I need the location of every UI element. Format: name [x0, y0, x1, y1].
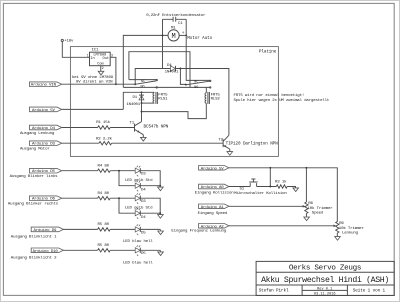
resistor R7 80 [98, 244, 111, 252]
title block box [256, 261, 394, 295]
svg-text:9V direkt an VIN: 9V direkt an VIN [76, 80, 113, 85]
svg-text:IC1: IC1 [92, 49, 100, 53]
svg-text:NO: NO [194, 86, 198, 90]
svg-text:RLS1: RLS1 [158, 98, 168, 102]
svg-text:Stefan Pirkl: Stefan Pirkl [259, 289, 289, 294]
wire LED to ground row3 [141, 228, 161, 230]
ground under trimmer R7 [335, 237, 341, 241]
svg-text:TIP120 Darlington NPN: TIP120 Darlington NPN [226, 141, 279, 146]
wire A0 to switch [229, 186, 250, 188]
svg-text:R6: R6 [308, 202, 313, 206]
svg-text:Lenkung: Lenkung [342, 231, 359, 236]
svg-text:LED gelb Std: LED gelb Std [125, 206, 153, 211]
ground row4 [158, 250, 164, 255]
wire T1 collector [141, 112, 143, 122]
svg-text:Spule hier wegen 2x UM zweimal: Spule hier wegen 2x UM zweimal dargestel… [234, 98, 330, 103]
junction VIN rail [115, 83, 117, 85]
wire motor B down to NC contact of K1b [186, 19, 210, 80]
connector Arduino A1 [198, 204, 229, 216]
svg-text:Arduino D6: Arduino D6 [32, 197, 56, 202]
svg-text:D1: D1 [133, 96, 138, 100]
wire T2 emitter [229, 149, 231, 151]
svg-text:Akku Spurwechsel Hindi (ASH): Akku Spurwechsel Hindi (ASH) [261, 275, 389, 285]
svg-text:LED gelb Std: LED gelb Std [125, 178, 153, 183]
connector Arduino D9 [11, 227, 64, 240]
wire NO line common [123, 86, 210, 88]
wire collector rail to RLS2 [142, 103, 207, 118]
svg-text:R4 80: R4 80 [98, 164, 110, 168]
svg-text:Arduino D3: Arduino D3 [32, 142, 56, 147]
junction motor B / cap [185, 34, 187, 36]
svg-text:Platine: Platine [259, 49, 277, 54]
wire switch to R3 [257, 186, 277, 188]
switch S1 Microschalter [234, 179, 287, 196]
junction diode row to pole K1b [179, 68, 181, 70]
svg-text:0,22nF Entstoerkondensator: 0,22nF Entstoerkondensator [146, 13, 206, 18]
svg-text:NC: NC [141, 80, 145, 84]
svg-text:Arduino 5V: Arduino 5V [32, 108, 56, 113]
svg-text:D5: D5 [141, 231, 146, 235]
resistor R5 80 [98, 223, 111, 231]
svg-text:Mikroschalter Kollision: Mikroschalter Kollision [234, 191, 287, 196]
wire A2 to trimmer wiper [229, 225, 334, 227]
diode D4 1N4001 [165, 64, 179, 74]
svg-text:Arduino D4: Arduino D4 [32, 126, 56, 131]
ground after R3 [293, 188, 299, 192]
junction D1 top [141, 91, 143, 93]
wire LEDs to ground rail row1 [141, 171, 161, 186]
svg-text:Arduino D9: Arduino D9 [34, 228, 58, 233]
svg-text:In: In [90, 57, 94, 61]
connector Arduino D5 [10, 168, 62, 179]
svg-text:Motor Auto: Motor Auto [187, 36, 212, 41]
relay contact K1a (NC/NO) [129, 79, 158, 89]
svg-text:R3 1k: R3 1k [275, 179, 287, 184]
relay coil RLS2 [205, 92, 220, 104]
svg-text:LED blau hell: LED blau hell [123, 239, 153, 244]
wire D3 to R2 [62, 142, 99, 144]
svg-text:Eingang Speed: Eingang Speed [198, 211, 228, 216]
ground under trimmer R6 [304, 217, 310, 221]
junction pole K1a [134, 83, 136, 85]
svg-text:FRT5 wird nur einmal benoetigt: FRT5 wird nur einmal benoetigt! [234, 93, 305, 98]
diode D1 1N4001 flyback [126, 92, 144, 107]
wire D10 to R7 [63, 249, 97, 251]
wire D9 to R5 [63, 228, 97, 230]
transistor T1 BC547b NPN [130, 121, 169, 134]
wire R7 to LED [110, 249, 135, 251]
svg-text:+18v: +18v [64, 40, 74, 44]
svg-text:10k Trimmer: 10k Trimmer [339, 226, 365, 231]
wire D1/coil to T1 collector rail [141, 103, 143, 112]
svg-text:Arduino A1: Arduino A1 [201, 205, 225, 210]
svg-text:D4: D4 [167, 64, 172, 68]
svg-text:Arduino D5: Arduino D5 [32, 169, 56, 174]
connector Arduino VIN [30, 82, 62, 88]
wire LED to ground row4 [141, 249, 161, 251]
svg-text:LED blau hell: LED blau hell [123, 260, 153, 265]
wire motor terminal B stub [179, 34, 186, 36]
svg-text:Arduino A0: Arduino A0 [201, 185, 225, 190]
svg-text:Ausgang Motor: Ausgang Motor [20, 147, 50, 151]
ground row2 [158, 213, 164, 218]
wire coil RLS2 top pin [205, 87, 207, 92]
svg-text:Rev 0.1: Rev 0.1 [317, 288, 332, 292]
svg-text:Ausgang Blinklicht 1: Ausgang Blinklicht 1 [11, 235, 57, 240]
wire IC1 Com pin 2 [100, 66, 102, 71]
wire R3 to ground [287, 187, 295, 188]
svg-text:R5 80: R5 80 [98, 244, 110, 248]
connector Arduino 5V (left) [30, 107, 62, 113]
svg-text:10k Trimmer: 10k Trimmer [308, 206, 334, 211]
svg-text:T2: T2 [218, 139, 223, 143]
LED D3 [135, 166, 146, 177]
resistor R4 80 [98, 164, 111, 172]
ground under IC1 [98, 71, 104, 75]
supply pin +18v [61, 39, 74, 43]
relay contact K1b (NC/NO) [186, 80, 211, 90]
svg-text:Out: Out [103, 57, 109, 61]
svg-text:Seite 1 von 1: Seite 1 von 1 [353, 289, 386, 294]
connector Arduino D4 [20, 125, 62, 136]
connector Arduino A0 [195, 184, 234, 195]
svg-text:D4: D4 [141, 216, 146, 220]
potentiometer R6 10k Trimmer Speed [303, 168, 334, 217]
svg-text:1N4001: 1N4001 [126, 103, 140, 107]
junction motor A / cap [162, 34, 164, 36]
svg-text:1N4001: 1N4001 [165, 71, 179, 75]
ground under T2 [227, 152, 233, 156]
wire diode row / pole to TIP120 collector [135, 69, 229, 136]
svg-text:RLS2: RLS2 [211, 98, 221, 102]
relay coil RLS1 [153, 92, 168, 104]
svg-text:1: 1 [87, 54, 89, 58]
resistor R6 80 [98, 192, 111, 200]
connector Arduino D10 [11, 248, 64, 260]
wire +18v to IC1 In [62, 42, 89, 58]
svg-text:Ausgang Lenkung: Ausgang Lenkung [20, 131, 55, 136]
ground under T1 [141, 137, 147, 141]
svg-text:Eingang Kollision: Eingang Kollision [195, 190, 234, 195]
svg-text:R6: R6 [339, 222, 344, 226]
svg-text:M: M [171, 33, 175, 41]
svg-text:D3: D3 [141, 173, 146, 177]
svg-text:Ausgang Blinklicht 2: Ausgang Blinklicht 2 [11, 255, 57, 260]
svg-text:03.11.2016: 03.11.2016 [314, 293, 336, 297]
wire coil RLS1 bottom rail [142, 102, 155, 104]
resistor R2 2,2k [96, 136, 113, 145]
svg-text:Speed: Speed [312, 211, 324, 216]
wire T1 emitter [142, 135, 144, 138]
Platine board outline [70, 47, 278, 157]
svg-text:R2 2,2k: R2 2,2k [96, 136, 113, 141]
motor M1 [168, 26, 185, 41]
svg-text:BC547b NPN: BC547b NPN [144, 125, 169, 130]
wire R1 to T1 base [110, 127, 134, 129]
LED D8 [135, 245, 146, 256]
svg-text:D4: D4 [141, 188, 146, 192]
wire pole of contact K1b [180, 69, 185, 85]
svg-text:D3: D3 [141, 200, 146, 204]
LED D5 [135, 193, 146, 204]
potentiometer R7 10k Trimmer Lenkung [334, 222, 365, 237]
svg-text:Ausgang Blinker rechts: Ausgang Blinker rechts [8, 202, 59, 207]
wire motor terminal A to NO contact [123, 35, 168, 87]
wire 5V rail right [229, 168, 337, 222]
svg-text:M1: M1 [171, 26, 176, 30]
ground row3 [158, 229, 164, 234]
svg-text:Arduino VIN: Arduino VIN [31, 83, 57, 88]
svg-text:R4 80: R4 80 [98, 192, 110, 196]
svg-text:T1: T1 [130, 121, 135, 125]
svg-text:R1 15k: R1 15k [96, 120, 110, 125]
wire A1 to trimmer wiper [229, 205, 303, 207]
connector Arduino 5V (right) [199, 166, 229, 172]
svg-text:S1: S1 [240, 187, 245, 191]
svg-text:D5: D5 [141, 252, 146, 256]
svg-text:C1: C1 [178, 22, 183, 26]
wire crossover NC K1a to NO line [129, 52, 190, 88]
connector Arduino D6 [8, 196, 62, 207]
LED D7 [135, 224, 146, 235]
LED D4 [135, 181, 146, 193]
connector Arduino A2 [171, 224, 229, 234]
wire 5V feed up to coil rail [123, 92, 154, 109]
resistor R1 15k [96, 120, 110, 129]
resistor R3 1k [275, 179, 287, 188]
wire IC1 Out to VIN rail [110, 57, 116, 84]
svg-text:Arduino A2: Arduino A2 [201, 224, 225, 229]
svg-text:Arduino D10: Arduino D10 [33, 249, 59, 254]
svg-text:Eingang Frequenz Lenkung: Eingang Frequenz Lenkung [171, 229, 226, 234]
ground row1 [158, 186, 164, 191]
wire R5 to LED [110, 228, 135, 230]
svg-text:NC: NC [194, 81, 198, 85]
svg-text:2: 2 [102, 66, 104, 70]
wire capacitor left leg down to diode row [162, 19, 164, 68]
wire 5V to coil feed [62, 108, 124, 110]
wire D6 to R6 [62, 197, 98, 199]
wire 5V down to switch node [269, 168, 271, 187]
op-amp-style box: voltage regulator IC1 LM7809 [87, 49, 113, 71]
capacitor C1 [163, 17, 187, 26]
LED D6 [135, 208, 146, 220]
transistor T2 TIP120 Darlington NPN [218, 135, 278, 149]
wire R2 to T2 base [112, 142, 224, 144]
wire VIN line to relay pole [62, 83, 136, 85]
svg-text:Ausgang Blinker links: Ausgang Blinker links [10, 174, 59, 179]
wire D4 to R1 [62, 127, 98, 129]
svg-text:R5 80: R5 80 [98, 223, 110, 227]
wire R6 to LEDs [110, 198, 135, 213]
svg-text:Arduino 5V: Arduino 5V [201, 166, 225, 171]
connector Arduino D3 [20, 141, 62, 152]
svg-text:bei 9V ohne LM7809: bei 9V ohne LM7809 [72, 75, 114, 80]
wire LEDs to ground rail row2 [141, 198, 161, 213]
wire D5 to R4 [62, 170, 98, 172]
wire R4 to LEDs [110, 171, 135, 186]
svg-text:Oerks Servo Zeugs: Oerks Servo Zeugs [289, 265, 361, 273]
